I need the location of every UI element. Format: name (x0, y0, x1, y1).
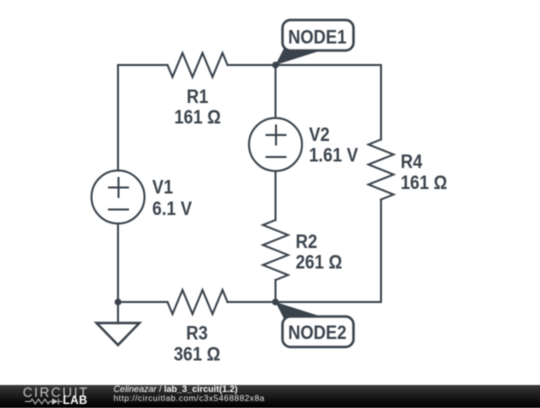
node C junction dot ground (115, 299, 122, 306)
wire top-left to R1 (118, 64, 168, 66)
svg-text:R4: R4 (401, 150, 423, 172)
svg-text:V1: V1 (152, 175, 173, 197)
svg-text:R2: R2 (296, 230, 318, 252)
svg-text:LAB: LAB (63, 395, 88, 406)
logo resistor glyph (25, 398, 63, 404)
footer text line 2 (114, 394, 265, 403)
svg-text:6.1 V: 6.1 V (152, 197, 192, 219)
logo diode triangle (52, 398, 58, 404)
wire R1 to top-right corner (228, 64, 382, 66)
NODE1 label box (283, 20, 354, 51)
resistor R2 (263, 220, 288, 280)
wire right rail upper (380, 65, 382, 140)
svg-text:V2: V2 (309, 123, 330, 145)
voltage source V1 (92, 171, 145, 224)
svg-text:R1: R1 (187, 85, 209, 107)
wire left rail upper (117, 65, 119, 171)
logo diode cathode (57, 398, 59, 404)
wire V2 bottom to R2 (275, 171, 277, 220)
wire R2 to node2 (275, 280, 277, 302)
NODE1 flag pointer (276, 49, 318, 65)
svg-text:NODE1: NODE1 (288, 25, 346, 47)
svg-text:R3: R3 (186, 321, 208, 343)
footer text line 1 (114, 385, 238, 394)
svg-text:161 Ω: 161 Ω (174, 106, 221, 128)
resistor R4 (369, 140, 394, 200)
voltage source V2 (249, 118, 302, 171)
NODE2 flag pointer (276, 302, 318, 318)
wire left rail lower (117, 224, 119, 303)
svg-text:261 Ω: 261 Ω (296, 251, 343, 273)
NODE2 label box (283, 317, 354, 348)
wire bottom-left to R3 (118, 301, 168, 303)
circuitlab logo (0, 385, 110, 406)
svg-text:NODE2: NODE2 (288, 321, 346, 343)
label R1 value (152, 85, 447, 365)
resistor R3 (168, 290, 228, 314)
wire node1 to V2 top (275, 65, 277, 118)
node B junction dot NODE2 (272, 299, 279, 306)
wire right rail lower (380, 200, 382, 303)
wire R3 to bottom-right corner (228, 301, 382, 303)
svg-text:161 Ω: 161 Ω (401, 171, 448, 193)
node A junction dot NODE1 (272, 62, 279, 69)
resistor R1 (168, 53, 228, 77)
svg-text:1.61 V: 1.61 V (309, 144, 359, 166)
footer watermark bar (0, 385, 540, 408)
svg-text:361 Ω: 361 Ω (174, 343, 221, 365)
ground (117, 302, 119, 323)
